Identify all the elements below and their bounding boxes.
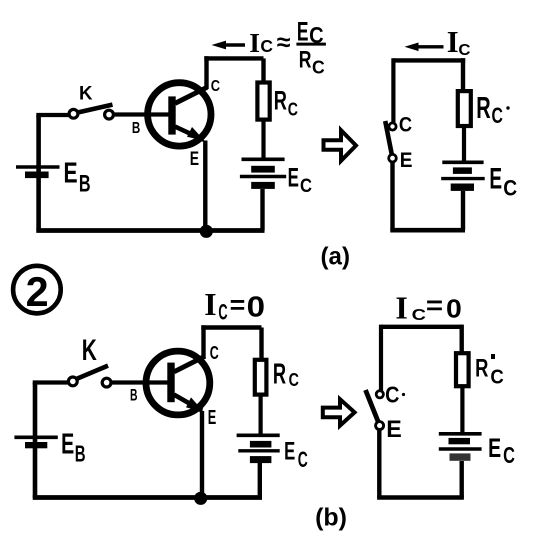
svg-text:0: 0 bbox=[446, 295, 462, 323]
battery EC equiv (a) bbox=[441, 162, 485, 191]
svg-text:C: C bbox=[490, 366, 504, 389]
wire battery to bottom equiv (b) bbox=[460, 461, 464, 498]
svg-text:I: I bbox=[395, 290, 407, 326]
label RC (b) bbox=[273, 358, 299, 390]
transistor Q1 (a) bbox=[148, 83, 211, 146]
wire resistor to battery equiv (a) bbox=[462, 126, 466, 162]
svg-text:C: C bbox=[399, 114, 412, 137]
wire top horizontal equiv (a) bbox=[393, 58, 465, 62]
switch C-E open equiv (b) bbox=[366, 390, 384, 430]
svg-text:=: = bbox=[230, 290, 246, 320]
wire collector up (b) bbox=[201, 325, 205, 358]
wire resistor to battery (a) bbox=[261, 120, 265, 160]
svg-text:R: R bbox=[476, 92, 491, 125]
label RC (a) bbox=[274, 86, 298, 120]
svg-text:K: K bbox=[79, 82, 93, 104]
wire collector up (a) bbox=[204, 56, 208, 89]
switch K (a) closed bbox=[69, 105, 113, 119]
svg-text:C: C bbox=[300, 176, 312, 197]
svg-text:C: C bbox=[260, 36, 273, 56]
wire bottom horizontal (a) bbox=[36, 228, 264, 233]
svg-text:C: C bbox=[218, 300, 227, 325]
svg-text:B: B bbox=[75, 440, 86, 466]
label EB (b) bbox=[61, 427, 85, 466]
svg-text:K: K bbox=[82, 334, 97, 367]
svg-text:E: E bbox=[489, 163, 502, 196]
svg-text:C: C bbox=[289, 369, 299, 390]
wire top horizontal equiv (b) bbox=[381, 325, 462, 329]
svg-text:R: R bbox=[475, 355, 488, 383]
svg-text:0: 0 bbox=[247, 291, 265, 323]
svg-text:E: E bbox=[190, 148, 199, 170]
svg-text:R: R bbox=[274, 86, 287, 116]
battery EB (a) bbox=[16, 167, 60, 178]
svg-text:E: E bbox=[61, 427, 74, 459]
wire bottom horizontal equiv (a) bbox=[390, 228, 465, 233]
switch C-E closed equiv (a) bbox=[385, 121, 396, 162]
svg-text:C: C bbox=[503, 442, 515, 468]
wire top-left horizontal to switch (b) bbox=[33, 380, 69, 384]
svg-text:E: E bbox=[386, 416, 402, 443]
wire top horizontal (b) bbox=[201, 325, 261, 329]
svg-text:E: E bbox=[400, 148, 413, 172]
svg-text:R: R bbox=[299, 47, 312, 74]
wire top horizontal (a) bbox=[204, 56, 263, 60]
label EB (a) bbox=[64, 157, 91, 197]
label RC equiv (a) bbox=[476, 92, 509, 128]
svg-text:E: E bbox=[288, 163, 299, 193]
svg-text:2: 2 bbox=[26, 268, 49, 315]
wire right vertical upper equiv (a) bbox=[461, 58, 465, 91]
label EC equiv (a) bbox=[489, 163, 517, 201]
svg-text:C: C bbox=[385, 381, 399, 407]
svg-text:C: C bbox=[211, 78, 220, 95]
resistor RC (b) bbox=[255, 360, 267, 395]
wire left vertical upper equiv (a) bbox=[391, 58, 395, 122]
svg-text:E: E bbox=[488, 433, 501, 463]
junction dot (b) bbox=[194, 492, 207, 505]
svg-text:≈: ≈ bbox=[277, 29, 291, 57]
wire switch to base (b) bbox=[111, 380, 168, 384]
svg-text:(a): (a) bbox=[321, 243, 351, 271]
big arrow (a) bbox=[324, 130, 357, 161]
label C equiv (b) bbox=[385, 381, 405, 407]
wire resistor to battery (b) bbox=[259, 395, 263, 436]
svg-text:B: B bbox=[132, 120, 140, 137]
svg-text:=: = bbox=[426, 290, 443, 320]
label IC = 0 equiv (b) bbox=[395, 290, 461, 326]
battery EC (a) bbox=[240, 159, 286, 189]
big arrow (b) bbox=[323, 399, 355, 425]
battery EB (b) bbox=[14, 437, 57, 448]
svg-text:C: C bbox=[412, 307, 427, 324]
wire emitter down (b) bbox=[200, 411, 204, 498]
resistor RC (a) bbox=[257, 83, 269, 120]
svg-text:R: R bbox=[273, 358, 286, 390]
wire battery to bottom equiv (a) bbox=[461, 191, 465, 230]
resistor RC equiv (b) bbox=[456, 353, 469, 386]
wire bottom horizontal equiv (b) bbox=[377, 495, 464, 500]
svg-text:C: C bbox=[458, 42, 471, 59]
label IC ≈ EC/RC (a) bbox=[249, 16, 326, 77]
label EC (b) bbox=[284, 438, 308, 473]
label IC = 0 (b) bbox=[204, 287, 265, 325]
svg-text:C: C bbox=[492, 103, 504, 128]
wire bottom horizontal (b) bbox=[33, 495, 262, 500]
svg-text:E: E bbox=[284, 438, 295, 466]
wire left vertical upper equiv (b) bbox=[379, 325, 383, 391]
svg-text:I: I bbox=[204, 287, 216, 322]
label EC (a) bbox=[288, 163, 313, 197]
battery EC (b) bbox=[237, 435, 280, 463]
svg-text:C: C bbox=[298, 447, 308, 472]
switch K (b) open bbox=[68, 366, 111, 387]
wire left vertical lower equiv (b) bbox=[377, 430, 381, 498]
svg-text:C: C bbox=[210, 343, 219, 363]
svg-text:(b): (b) bbox=[315, 504, 347, 532]
wire left vertical (b) bbox=[33, 383, 38, 498]
svg-text:I: I bbox=[249, 27, 260, 58]
svg-text:C: C bbox=[503, 175, 517, 200]
label R'C equiv (b) bbox=[475, 354, 504, 389]
resistor RC equiv (a) bbox=[458, 91, 471, 126]
wire right vertical upper equiv (b) bbox=[460, 325, 464, 354]
wire down to resistor (b) bbox=[259, 328, 263, 360]
svg-text:E: E bbox=[297, 16, 309, 46]
svg-text:I: I bbox=[447, 25, 459, 59]
wire emitter down (a) bbox=[203, 141, 207, 232]
label IC equiv (a) bbox=[447, 25, 471, 59]
wire battery to bottom (b) bbox=[258, 463, 262, 498]
label EC equiv (b) bbox=[488, 433, 515, 468]
wire switch to base (a) bbox=[114, 112, 170, 116]
svg-text:C: C bbox=[288, 99, 298, 120]
svg-text:E: E bbox=[208, 406, 217, 429]
wire left vertical (a) bbox=[36, 115, 41, 231]
current arrow IC (a) bbox=[212, 41, 246, 50]
svg-text:C: C bbox=[312, 57, 325, 77]
svg-text:B: B bbox=[79, 170, 91, 197]
junction dot (a) bbox=[200, 225, 213, 238]
wire down to resistor (a) bbox=[261, 58, 265, 82]
battery EC equiv (b) bbox=[439, 434, 482, 461]
transistor Q2 (b) bbox=[146, 351, 210, 415]
wire top-left horizontal to switch (a) bbox=[36, 113, 69, 117]
wire resistor to battery equiv (b) bbox=[460, 386, 464, 434]
wire left vertical lower equiv (a) bbox=[390, 162, 394, 231]
svg-text:B: B bbox=[130, 385, 138, 404]
wire battery to bottom (a) bbox=[260, 189, 264, 231]
current arrow IC equiv (a) bbox=[405, 43, 444, 52]
svg-text:E: E bbox=[64, 157, 78, 189]
